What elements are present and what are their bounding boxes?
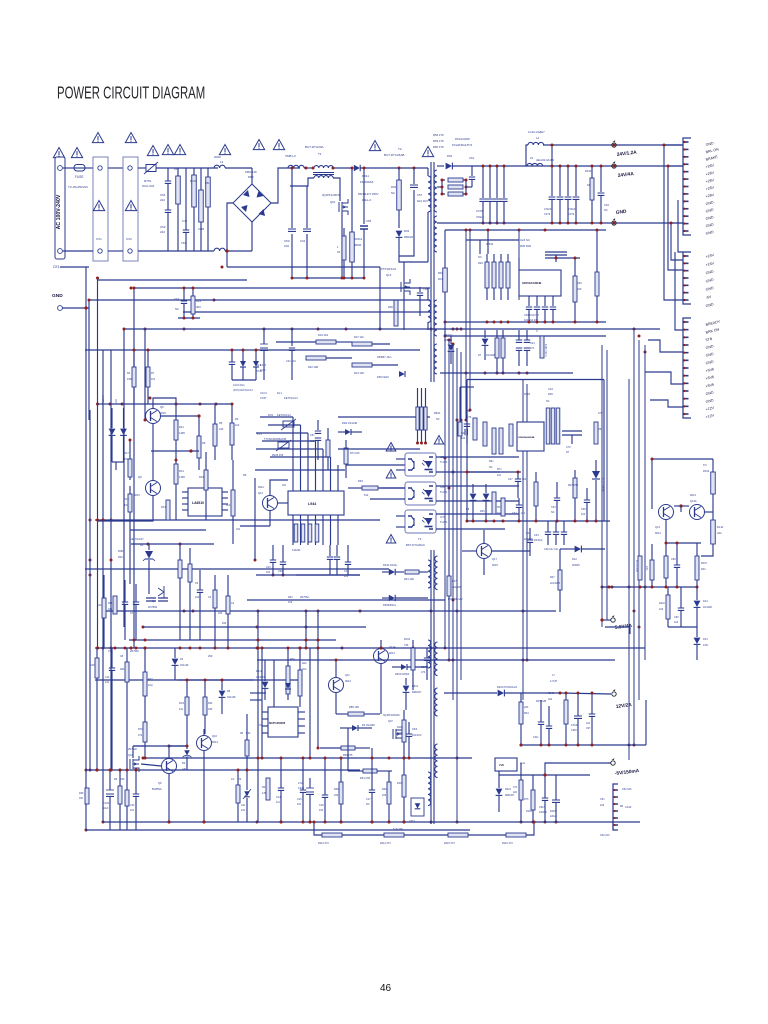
svg-text:222: 222 [548,698,553,701]
svg-text:C56: C56 [366,219,372,223]
svg-text:6.2R 74C 1: 6.2R 74C 1 [544,344,547,357]
svg-text:RRK207: RRK207 [505,794,515,797]
svg-text:R30: R30 [334,788,339,791]
svg-text:R32: R32 [288,596,293,599]
wire q net [161,415,199,417]
svg-text:R10x: R10x [397,782,403,785]
diode D610 [389,569,395,575]
junctions [540,744,543,747]
svg-text:221/32W: 221/32W [550,582,561,585]
bus y521 [467,520,610,522]
resistor column x240 [231,490,235,516]
svg-text:C979: C979 [421,666,428,669]
wire [379,267,381,330]
junctions [257,647,260,650]
capacitor C63 [406,734,412,736]
vertical x124 [123,329,125,627]
svg-text:3R: 3R [240,732,243,735]
resistor R103 [531,790,535,810]
wire Q4-Q5 link [152,424,154,480]
svg-text:D51/LD20R: D51/LD20R [455,137,470,141]
resistor R104 TN [711,472,716,494]
svg-text:C24 NC: C24 NC [520,238,530,242]
transistor Q12 circle [263,496,278,511]
junctions [466,471,469,474]
svg-text:C9x7: C9x7 [539,806,545,809]
svg-text:220uF: 220uF [550,815,557,818]
svg-text:BC856A: BC856A [152,787,162,791]
svg-text:R20: R20 [118,556,123,559]
svg-text:D621: D621 [505,788,512,791]
resistor R13h [352,363,372,367]
svg-text:160: 160 [334,794,339,797]
svg-text:R30 R36: R30 R36 [520,244,531,248]
resistors below IC4 [492,492,496,514]
svg-text:161: 161 [297,803,302,806]
svg-text:C370: C370 [476,209,483,213]
caps x519 x527 [516,340,522,342]
svg-text:9013: 9013 [690,493,696,497]
wire y240 seg [466,239,519,241]
capacitor C27b [515,479,521,481]
svg-text:161: 161 [151,378,156,381]
svg-text:R115 473: R115 473 [444,842,455,845]
resistor x536 [534,482,538,506]
svg-text:C3x 104: C3x 104 [286,359,296,363]
mid horizontal y544 [131,543,214,545]
svg-text:R1b: R1b [97,604,102,607]
svg-text:POWDL/AV: POWDL/AV [448,597,463,601]
resistor x596 [594,422,598,444]
resistor R21 [174,420,178,440]
zener diode [145,551,153,559]
bus y288 [134,287,430,289]
svg-text:D612: D612 [412,685,419,688]
optocoupler IC5 PC817 [405,453,436,476]
resistor x460 [458,422,462,436]
wire [138,167,146,169]
svg-text:NC: NC [489,466,493,469]
resistor R24/R9 column x206 [204,470,208,490]
svg-text:9015: 9015 [492,563,498,567]
wire Q12 to IC [278,502,288,504]
wire Q6 emitter [98,496,154,521]
svg-text:D14: D14 [703,600,708,603]
bus y758 [143,757,472,759]
svg-text:3A2: 3A2 [717,531,722,535]
svg-text:C51: C51 [600,798,605,801]
wire [602,619,611,621]
svg-text:104: 104 [105,681,110,684]
svg-text:KB0-#16: KB0-#16 [245,170,257,174]
resistor R106 [402,720,406,742]
svg-text:T2: T2 [398,147,402,151]
GND bus top right [437,222,683,224]
svg-text:512: 512 [364,493,369,497]
svg-text:R114 473: R114 473 [380,842,391,845]
junctions [486,321,489,324]
svg-text:1N/3A2: 1N/3A2 [534,539,543,542]
svg-text:R19 1K2: R19 1K2 [318,333,329,337]
svg-text:0.47: 0.47 [182,219,188,223]
bottom right connector CA40 [613,784,618,830]
svg-text:C1C3 DL1: C1C3 DL1 [233,384,245,387]
resistor trio above optos [416,407,419,430]
snubber resistors R56/R59/R60 [448,178,463,182]
svg-text:463: 463 [196,305,201,309]
svg-text:C33: C33 [551,506,556,509]
NCP pins [262,711,268,713]
diode D12 [575,546,581,553]
svg-text:R110: R110 [659,602,665,605]
wire T1 left down [290,178,314,186]
vertical x467 [466,380,468,522]
svg-text:R104: R104 [703,469,710,473]
svg-text:GND: GND [52,293,63,299]
wire [338,448,420,450]
transformer T3 core [430,550,432,824]
svg-text:222: 222 [160,198,165,202]
wire [459,387,461,422]
resistor R8 [197,436,201,458]
resistor R37 column [178,560,182,578]
bus y775 -5V [499,774,590,776]
svg-text:T3: T3 [418,537,422,541]
svg-text:D610 1N16+: D610 1N16+ [383,563,398,567]
wire [555,255,557,258]
vertical x131 [133,288,135,648]
svg-text:C90: C90 [674,616,679,619]
wire under C10 [178,317,200,319]
svg-text:1N4867: 1N4867 [256,676,265,679]
svg-text:R34 1/52: R34 1/52 [360,777,371,780]
svg-text:KTP12NL10: KTP12NL10 [381,267,397,271]
svg-text:441: 441 [179,708,184,711]
svg-text:R24: R24 [120,668,125,671]
svg-text:FMX06A6: FMX06A6 [360,180,374,184]
wire [403,292,405,330]
svg-text:C32: C32 [512,512,517,515]
svg-text:NC: NC [551,511,555,514]
top feeds for left block [110,403,232,405]
svg-text:RL51: RL51 [190,179,197,183]
bus y746 small [133,745,187,747]
svg-text:FUSE: FUSE [75,175,84,179]
resistor R3b [298,670,302,696]
resistor R27b [143,672,147,696]
wire [526,145,528,166]
junctions [416,442,419,445]
capacitor C977b [542,798,548,800]
svg-text:C52: C52 [160,225,166,229]
wire gnd up [88,300,90,308]
wide cap C70 [562,431,582,435]
diode under R09 [285,683,291,689]
wires opto [396,458,405,460]
svg-text:R85 10K: R85 10K [349,705,359,709]
svg-text:16R: 16R [127,378,132,381]
svg-text:(047) KETXGC14: (047) KETXGC14 [233,389,253,392]
svg-text:C6/3: C6/3 [412,728,418,731]
bus y543 [666,542,701,544]
svg-text:3QJPF12N60C: 3QJPF12N60C [383,714,400,717]
resistor RL51 [192,175,197,207]
svg-text:2S: 2S [337,250,340,254]
svg-text:TL421: TL421 [440,490,448,494]
svg-text:103: 103 [659,608,664,611]
transformer T1 aux winding [314,176,333,178]
svg-text:Q13A: Q13A [690,499,697,503]
wire gnd [62,308,89,420]
svg-text:D66 FE16: D66 FE16 [377,375,389,379]
warning triangle T2 [422,147,433,157]
svg-text:C372: C372 [544,212,551,216]
svg-text:111: 111 [276,801,280,804]
resistor R27h [352,342,372,346]
svg-text:2N5: 2N5 [480,510,485,513]
svg-text:C21: C21 [241,804,246,807]
wire bridge top [251,168,253,184]
primary ground bus [292,277,364,279]
resistor R110 [666,595,670,619]
svg-text:RT51: RT51 [144,179,152,183]
svg-text:C977: C977 [409,820,415,823]
junctions [551,165,554,168]
junctions [441,179,444,182]
capacitor C14 [345,562,351,564]
svg-text:R62: R62 [598,428,603,431]
varistor RT51 [146,165,156,172]
svg-text:D611: D611 [362,174,369,178]
svg-text:1K2: 1K2 [497,512,502,515]
left gnd verticals [85,267,87,830]
T3 primary winding upper [428,560,431,588]
capacitor C90a [674,565,680,567]
diode D6 NC [448,345,455,351]
horizontal wires in center [255,469,345,471]
capacitor C58 [419,287,421,292]
svg-text:16F: 16F [79,797,84,800]
svg-text:222: 222 [513,791,518,794]
capacitor C51 [167,168,169,181]
transformer T2 secondary winding 3 [434,300,437,336]
svg-text:GPA50A/AN04B: GPA50A/AN04B [522,281,542,285]
svg-text:6.3V ZR: 6.3V ZR [393,827,403,831]
wire [240,525,270,527]
mid horizontal in left block y460 [151,450,199,452]
svg-text:C18: C18 [319,804,324,807]
zener with arrow C21 [244,791,250,796]
svg-text:C53: C53 [181,241,186,245]
bus y745 12V gnd [521,744,646,746]
svg-text:C38: C38 [581,508,586,511]
wire [417,388,419,407]
svg-text:9013: 9013 [212,740,218,744]
vertical x97 [97,278,99,648]
svg-text:R73: R73 [524,798,529,801]
wire -5V to terminal [545,763,611,775]
capacitor C33b [133,794,139,796]
diode D821 box [411,798,424,816]
resistor R85 [348,712,364,716]
terminal 24V/1.2A [612,143,616,147]
svg-text:222: 222 [160,230,165,234]
resistor R1/2 [236,785,240,803]
wire [296,574,360,576]
svg-text:IC7x: IC7x [440,515,446,519]
wire y627 [668,626,697,628]
wire [85,167,93,169]
svg-text:L51: L51 [174,167,179,171]
svg-text:E51: E51 [205,181,210,185]
transistor Q6 [146,481,161,496]
svg-text:163: 163 [288,601,293,604]
svg-text:C34: C34 [534,534,539,537]
resistor R06 [394,300,398,326]
svg-text:KETXGC27: KETXGC27 [130,537,144,541]
IC531 GPA50A block [519,270,561,296]
resistor R44 [405,570,419,574]
svg-text:LA6510: LA6510 [192,501,204,505]
capacitor C97 [589,714,595,716]
connector CN3 [683,318,691,418]
resistor R63 1R2 [443,268,448,292]
svg-text:D52: D52 [447,154,453,158]
terminal 5.6V/4A [611,618,615,622]
wire 12V return [645,700,647,745]
terminal 24V/4A [612,164,616,168]
vertical x604 [603,380,605,522]
bus y267 bridge negative [227,266,380,268]
svg-text:2651: 2651 [118,550,124,553]
svg-text:4.7UH: 4.7UH [550,680,557,683]
svg-text:104: 104 [461,437,466,440]
resistor x511 [509,424,513,446]
zener DL2b [253,361,259,367]
svg-text:R6x: R6x [489,460,494,463]
svg-text:LED: LED [115,399,118,404]
svg-text:100: 100 [284,244,289,248]
wire [479,240,481,254]
svg-text:R27 110: R27 110 [354,335,364,339]
svg-text:C50 105: C50 105 [622,788,632,791]
vertical x318 [317,611,319,748]
svg-text:R104: R104 [404,638,411,641]
capacitor C10 [181,301,187,303]
optocoupler IC6 [405,482,436,505]
svg-text:R113 473: R113 473 [318,842,329,845]
bus y680 segment [177,679,253,681]
resistor at 597 [595,272,599,296]
svg-text:R7x: R7x [497,506,502,509]
warning triangles top row [53,148,64,158]
wire y530 [130,529,206,531]
resistors x497 x503 [495,338,499,358]
svg-text:C61: C61 [469,156,475,160]
svg-text:PWR-R: PWR-R [102,395,105,404]
svg-text:C71: C71 [513,786,518,789]
wire led join [112,461,124,463]
svg-text:R106: R106 [397,726,403,729]
diode D621 [496,789,503,795]
svg-text:R47: R47 [452,580,457,583]
resistor R34 [573,276,577,302]
optocoupler IC7 [405,510,436,533]
junctions [663,144,666,147]
svg-text:R90A: R90A [434,412,441,415]
svg-text:R32: R32 [382,788,387,791]
connector CE1 AC inlet [55,157,65,259]
wire [333,167,352,169]
capacitor C13b [270,560,276,562]
junctions [482,165,485,168]
svg-text:11Q: 11Q [148,684,153,687]
capacitor C53 [185,168,187,230]
svg-text:TL421: TL421 [440,460,448,464]
svg-text:D6(NC): D6(NC) [444,334,453,337]
wire [225,167,252,169]
wire bus [445,229,606,231]
resistor R7b [143,722,147,742]
svg-text:1/9C: 1/9C [703,644,708,647]
svg-text:C04: C04 [300,239,306,243]
resistor R73 [519,780,523,800]
opto wires to core [436,456,519,458]
junctions [109,403,112,406]
svg-text:135: 135 [262,792,267,795]
svg-text:1N4148: 1N4148 [703,606,712,609]
capacitor C5 [197,590,203,592]
svg-text:9015: 9015 [160,411,166,415]
svg-text:223: 223 [577,287,582,291]
svg-text:RO4: RO4 [179,702,185,705]
transformer T2 secondary winding 4 [434,344,437,374]
wire Q11 base [335,693,337,714]
wire bridge left down [227,203,233,267]
wires feeding CN3 [648,340,683,352]
LED D5 [111,408,113,428]
diode D604 [401,664,407,670]
svg-text:SCK-044: SCK-044 [142,184,155,188]
svg-text:C1C3: C1C3 [260,391,267,395]
svg-text:1k2: 1k2 [497,474,502,477]
diode D611 [354,165,360,171]
T3 secondary windings [435,556,438,590]
resistor R34c [203,697,207,715]
capacitor C17 [369,790,375,792]
bus y587 5.6V [602,586,697,588]
wire [129,530,131,560]
svg-text:161: 161 [319,809,324,812]
svg-text:R3: R3 [235,417,239,421]
svg-text:R5: R5 [219,421,223,425]
svg-text:C52 103: C52 103 [600,834,610,837]
warning triangle in CX1 [93,201,104,211]
resistor R13 [166,500,170,520]
resistor R14 [174,464,178,484]
filter caps after L4/L5 [551,145,553,196]
LED D6 [123,408,125,428]
svg-text:472: 472 [138,734,143,737]
svg-text:9013: 9013 [389,651,395,655]
svg-text:R9: R9 [202,441,206,445]
svg-text:104: 104 [586,722,591,725]
diode D62 [396,231,403,237]
inductor L4 [528,142,544,145]
capacitor C45 220uF [552,800,560,802]
wire Q13A to R110 [705,511,713,513]
fuse F51 [74,165,85,172]
